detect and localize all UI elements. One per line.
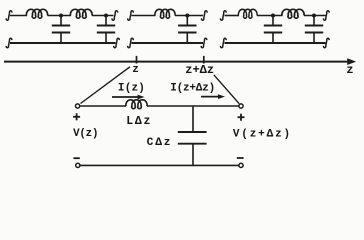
svg-text:z: z bbox=[132, 64, 139, 76]
svg-text:I(z): I(z) bbox=[118, 82, 145, 94]
svg-text:I(z+Δz): I(z+Δz) bbox=[170, 82, 215, 94]
svg-text:V(z): V(z) bbox=[73, 128, 98, 140]
svg-text:z+Δz: z+Δz bbox=[185, 63, 214, 77]
svg-text:LΔz: LΔz bbox=[126, 115, 152, 128]
svg-text:V(z+Δz): V(z+Δz) bbox=[233, 128, 292, 140]
svg-text:CΔz: CΔz bbox=[147, 137, 173, 149]
svg-text:z: z bbox=[346, 63, 353, 77]
